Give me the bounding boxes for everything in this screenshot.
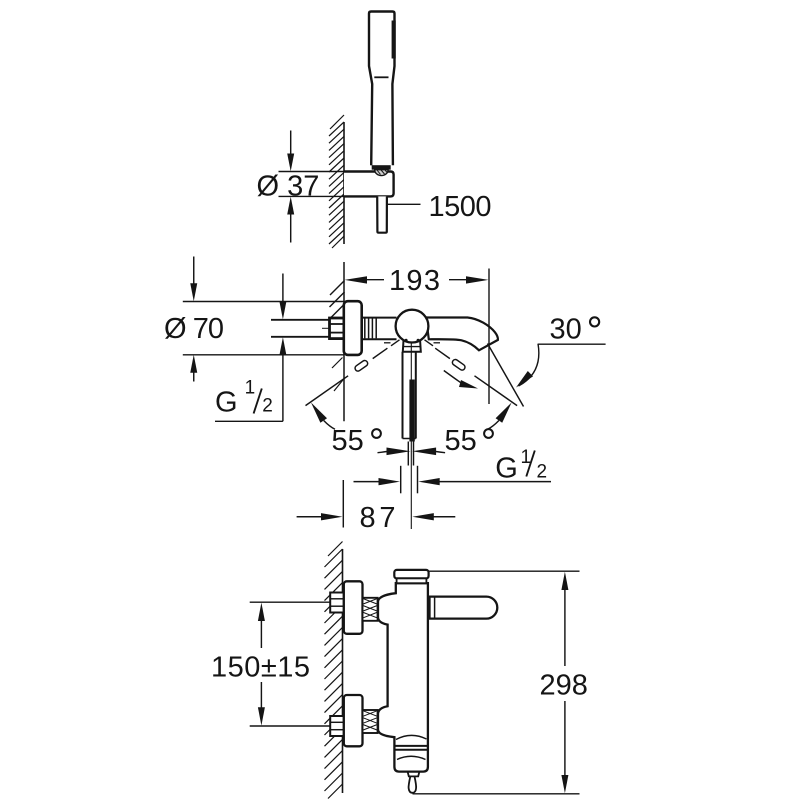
svg-text:298: 298	[540, 669, 588, 701]
dim 298 extension lines	[429, 570, 580, 572]
dim Ø37 arrow top	[290, 131, 292, 155]
nipple tube front	[362, 317, 397, 319]
wall surface line bottom	[342, 549, 344, 793]
wall hatch top band	[329, 115, 344, 248]
body axis dashes	[384, 342, 391, 344]
svg-text:55: 55	[332, 425, 364, 457]
dim 150 arrows	[258, 603, 265, 621]
body shoulder arc	[396, 735, 427, 739]
dim Ø70 arrow bottom	[193, 372, 195, 382]
blade tip lines	[407, 442, 409, 466]
svg-text:55: 55	[445, 425, 477, 457]
spout	[426, 318, 498, 351]
wall surface line top	[343, 122, 345, 244]
handle shaft	[402, 352, 404, 439]
bowtie arrow right	[436, 452, 445, 453]
wall ticks below flange	[332, 358, 343, 369]
right swing diagonal	[435, 348, 450, 358]
water drop	[409, 776, 417, 792]
escutcheon front	[344, 301, 362, 355]
seam line on handle	[374, 76, 388, 78]
right arc arrow outer	[488, 421, 499, 430]
outlet nub	[408, 772, 420, 777]
handle neck cone	[403, 341, 421, 352]
dim 298 arrows	[561, 572, 568, 590]
dim Ø37 arrow bottom	[290, 214, 292, 243]
hex nut side top	[330, 593, 344, 613]
wall hatch bottom band	[325, 542, 343, 799]
dim G1/2 right extension lines	[400, 466, 402, 494]
holder cone crescent	[375, 170, 388, 176]
escutcheon side bottom	[344, 695, 363, 746]
leader 1500	[387, 203, 421, 205]
shower hose	[377, 196, 387, 232]
body circle	[396, 310, 429, 343]
cartridge cap	[394, 570, 428, 579]
svg-text:2: 2	[262, 396, 273, 417]
dim G1/2 right arrows	[354, 481, 384, 483]
wall line middle	[343, 262, 345, 421]
handle blade	[409, 380, 414, 442]
dim 150 extension lines	[250, 601, 332, 603]
thread ridges	[364, 319, 366, 339]
svg-text:2: 2	[537, 462, 548, 483]
pipe axis dashes	[322, 327, 330, 329]
dim 193 arrows	[345, 276, 368, 283]
dim Ø37 extension lines	[279, 171, 346, 173]
hand shower body	[369, 12, 395, 166]
svg-text:1: 1	[245, 378, 256, 399]
threaded nipple side bottom	[363, 710, 378, 733]
hex nut side bottom	[330, 716, 344, 736]
dim G1/2 left arrows	[282, 274, 284, 303]
lever side	[430, 597, 498, 619]
dim Ø70 arrow top	[193, 257, 195, 285]
holder dark ring	[372, 165, 391, 170]
dim Ø70 extension lines	[183, 301, 344, 303]
bowtie arrow left	[378, 452, 387, 453]
svg-text:193: 193	[389, 265, 440, 297]
svg-text:Ø 70: Ø 70	[164, 313, 224, 345]
wall bracket	[344, 172, 394, 197]
dim 193 extension right	[488, 269, 490, 405]
spout inner arc	[397, 756, 426, 759]
30 deg stream line	[488, 344, 524, 407]
svg-text:G: G	[495, 453, 518, 485]
faucet body side	[378, 583, 428, 771]
right arc arrow inner	[444, 371, 462, 384]
dim 87 extension left	[342, 480, 344, 528]
svg-text:Ø 37: Ø 37	[257, 171, 320, 203]
svg-text:G: G	[215, 386, 238, 418]
dim 87 arrows	[297, 516, 325, 518]
left swing diagonal	[373, 348, 388, 358]
escutcheon side top	[344, 581, 363, 634]
left arc arrow outer	[324, 421, 335, 430]
swing diagonal starter dashes	[391, 340, 400, 346]
wall ticks above flange	[330, 281, 345, 296]
hex nut front	[330, 318, 345, 339]
spray strip	[392, 21, 396, 59]
svg-text:150±15: 150±15	[211, 652, 310, 684]
label G1/2 left	[215, 420, 283, 422]
threaded nipple side top	[363, 598, 378, 621]
pivot dots	[405, 339, 408, 342]
svg-text:30: 30	[550, 313, 582, 345]
inlet pipe front	[271, 319, 330, 321]
cap ring	[397, 578, 427, 583]
center line	[410, 343, 412, 529]
svg-text:1500: 1500	[429, 191, 492, 223]
body double ring	[394, 745, 428, 747]
